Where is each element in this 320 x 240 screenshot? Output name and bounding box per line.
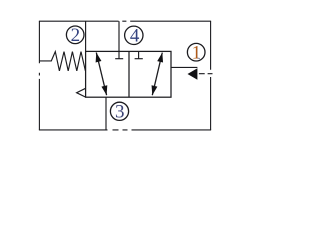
svg-text:4: 4 xyxy=(130,26,140,47)
svg-text:2: 2 xyxy=(71,25,81,46)
svg-text:3: 3 xyxy=(115,102,125,123)
svg-text:1: 1 xyxy=(192,43,202,64)
